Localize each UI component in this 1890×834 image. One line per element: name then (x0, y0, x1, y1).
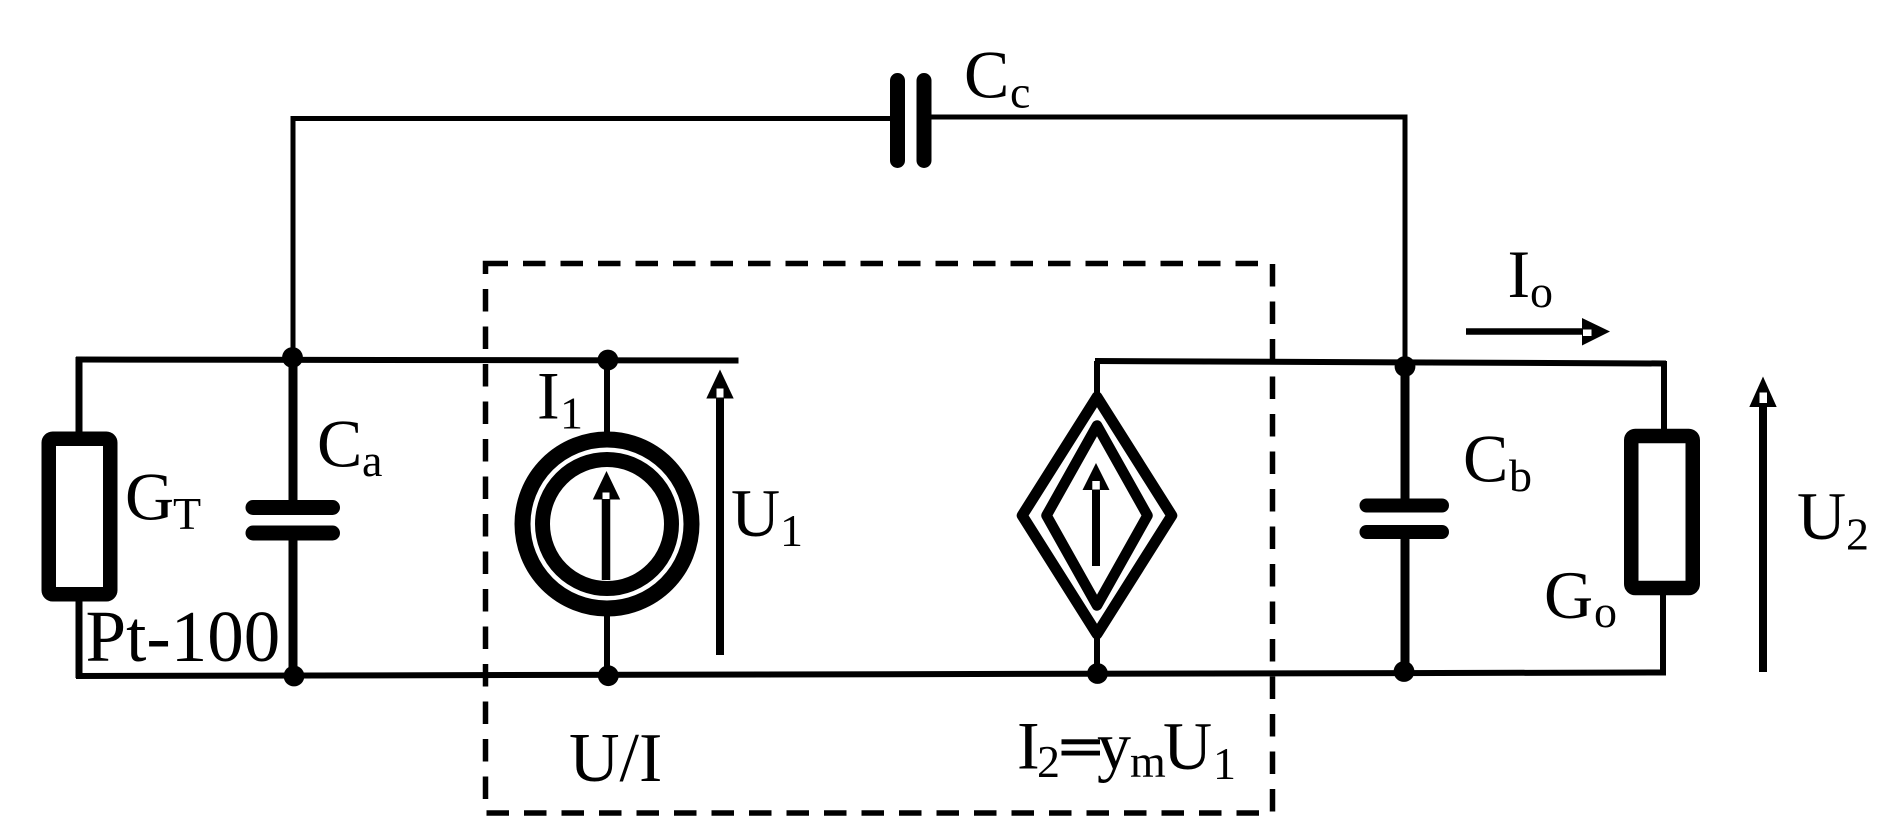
capacitor Cc right plate (917, 81, 932, 161)
arrow U1 (706, 370, 733, 656)
capacitor Ca plate top (253, 500, 333, 515)
label Cc (964, 37, 1030, 118)
svg-text:2: 2 (1037, 736, 1060, 787)
svg-text:2: 2 (1846, 509, 1869, 560)
wire right top rail (1095, 361, 1666, 364)
label U2 (1797, 478, 1869, 560)
wire left branch upper (76, 357, 83, 438)
svg-text:U: U (1163, 708, 1212, 784)
wire top-left vertical (node A to Cc loop) (291, 119, 296, 359)
svg-text:y: y (1097, 708, 1131, 784)
svg-text:a: a (362, 435, 382, 486)
wire right branch lower (1660, 592, 1666, 675)
svg-text:Pt-100: Pt-100 (86, 596, 281, 677)
wire top-right vertical (Cc loop to node C) (1403, 115, 1408, 366)
node bottom-middle (598, 665, 619, 686)
wire Cc loop top left segment (291, 116, 891, 121)
node bottom-left (284, 666, 305, 687)
wire Cb stub lower (1401, 530, 1410, 674)
svg-text:U: U (1797, 478, 1846, 554)
svg-text:U: U (731, 475, 780, 551)
label Go (1544, 557, 1617, 637)
wire circle source stub top (604, 359, 610, 442)
resistor Go (1631, 436, 1693, 588)
label Io (1508, 236, 1554, 317)
dashed box U/I converter (486, 264, 1273, 814)
label GT (125, 459, 201, 540)
arrow inside I2 source (1083, 463, 1110, 566)
svg-text:m: m (1130, 736, 1166, 787)
label I2=ymU1 (1017, 708, 1236, 790)
svg-text:1: 1 (560, 388, 583, 439)
svg-text:G: G (1544, 557, 1593, 633)
label Cb (1463, 421, 1532, 502)
wire bottom rail (76, 673, 1666, 677)
wire right branch upper (1661, 361, 1667, 432)
capacitor Cc left plate (890, 81, 905, 161)
svg-text:C: C (1463, 421, 1508, 497)
svg-text:I: I (1508, 236, 1531, 312)
svg-text:G: G (125, 459, 174, 535)
wire Ca stub lower (289, 531, 298, 675)
node top-right (1395, 356, 1416, 377)
dependent source I2 inner diamond (1047, 426, 1148, 606)
svg-text:C: C (964, 37, 1009, 113)
node top-middle (598, 350, 619, 371)
wire Cb stub upper (1401, 364, 1410, 507)
svg-text:o: o (1530, 266, 1553, 317)
svg-text:T: T (173, 488, 201, 539)
current source I1 outer circle (523, 440, 692, 609)
label Ca (317, 406, 382, 487)
node bottom-right (1394, 661, 1415, 682)
arrow Io (1466, 318, 1610, 346)
label U1 (731, 475, 803, 556)
capacitor Ca plate bottom (253, 526, 333, 541)
node bottom-diamond (1087, 663, 1108, 684)
svg-text:c: c (1010, 67, 1030, 118)
wire Cc loop top right segment (931, 115, 1408, 120)
label I1 (537, 358, 583, 439)
arrow inside I1 source (593, 471, 620, 580)
svg-text:1: 1 (1213, 738, 1236, 789)
svg-text:U/I: U/I (569, 720, 662, 797)
resistor GT (49, 439, 111, 595)
arrow U2 (1749, 377, 1776, 673)
wire left top rail (76, 360, 739, 361)
node top-left (282, 347, 303, 368)
dependent source I2 outer diamond (1022, 397, 1172, 634)
capacitor Cb plate top (1367, 499, 1443, 513)
capacitor Cb plate bottom (1367, 525, 1443, 539)
svg-text:I: I (537, 358, 560, 434)
wire left branch lower (76, 595, 83, 678)
svg-text:b: b (1509, 450, 1532, 501)
wire diamond stub bottom (1094, 636, 1100, 675)
current source I1 inner circle (543, 460, 672, 589)
wire Ca stub upper (289, 359, 298, 509)
svg-text:C: C (317, 406, 362, 482)
svg-text:o: o (1594, 586, 1617, 637)
svg-text:1: 1 (780, 505, 803, 556)
wire diamond stub top (1094, 361, 1100, 396)
wire circle source stub bottom (604, 607, 610, 675)
